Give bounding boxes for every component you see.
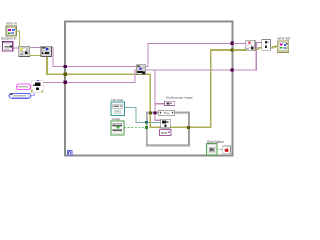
svg-text:error in: error in <box>6 22 17 26</box>
svg-text:File Path: File Path <box>111 98 123 102</box>
svg-text:Session In: Session In <box>1 36 17 40</box>
svg-text:BMP: BMP <box>161 131 168 135</box>
svg-text:True: True <box>164 111 171 115</box>
svg-text:error out: error out <box>278 37 291 41</box>
svg-text:Oscilloscope Image: Oscilloscope Image <box>166 95 193 99</box>
